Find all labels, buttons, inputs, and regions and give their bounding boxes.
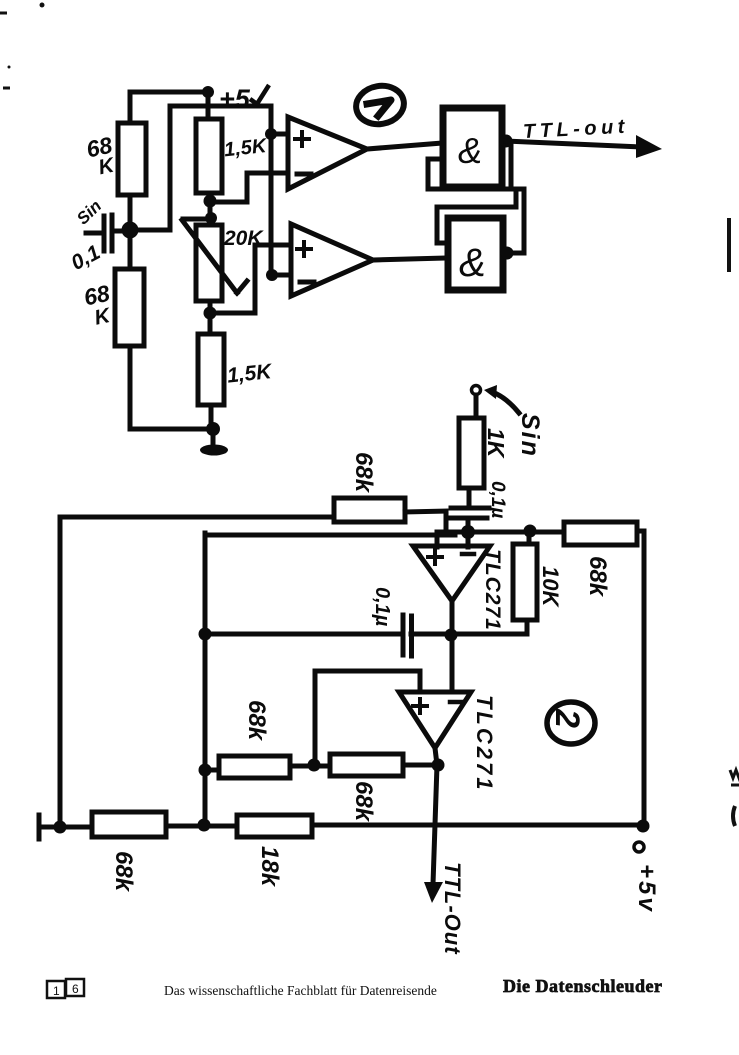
label TLC271 op-amp1 xyxy=(481,549,504,631)
svg-text:Das wissenschaftliche Fachblat: Das wissenschaftliche Fachblatt für Date… xyxy=(164,983,437,998)
resistor 68k mid right xyxy=(330,754,403,776)
speck xyxy=(40,3,45,8)
wire node down to lower 68K xyxy=(128,230,133,269)
label Sin input xyxy=(73,196,105,228)
wire 68K top lead xyxy=(128,92,133,123)
svg-text:Die Datenschleuder: Die Datenschleuder xyxy=(503,976,662,996)
resistor 10K xyxy=(513,544,537,620)
node 10K top xyxy=(524,525,537,538)
Sin pointer arrow xyxy=(492,392,519,413)
node potentiometer bottom xyxy=(204,307,217,320)
wire feedback right lead xyxy=(405,511,446,512)
wire +5V rail xyxy=(130,90,207,95)
wire input rail right segment xyxy=(437,530,564,535)
wire Sin terminal lead xyxy=(474,395,479,418)
label 68k feedback xyxy=(350,452,377,494)
label 68K upper xyxy=(84,132,119,181)
label +5V check mark xyxy=(250,85,269,104)
comparator 2 minus sign xyxy=(300,280,314,285)
svg-text:&: & xyxy=(459,241,486,285)
speck xyxy=(8,66,11,69)
svg-text:+5: +5 xyxy=(219,84,251,114)
capacitor 0,1u coupling xyxy=(448,508,489,518)
label 68k right xyxy=(584,556,611,598)
TTL-out arrowhead xyxy=(636,135,662,158)
wire op-amp1 minus lead xyxy=(466,532,471,547)
label 68k bottom xyxy=(110,851,137,893)
node bottom rail left xyxy=(54,821,67,834)
AND gate U2 xyxy=(448,218,503,290)
wire input rail left segment xyxy=(205,533,455,538)
svg-text:20K: 20K xyxy=(223,227,264,250)
op-amp comparator 2 xyxy=(291,224,373,296)
wire cap lower leads xyxy=(446,512,468,533)
wire comparator 1 output xyxy=(367,143,443,149)
footer page number box 6 xyxy=(66,979,84,996)
svg-text:2: 2 xyxy=(548,708,586,728)
node +5 rail bottom xyxy=(637,820,650,833)
op-amp1 plus sign xyxy=(428,550,442,564)
wire op-amp2 output down xyxy=(433,748,437,884)
wire outer left vertical xyxy=(58,518,63,827)
resistor R 68K upper xyxy=(118,123,146,195)
wire pot bottom to comparator 2 plus xyxy=(210,245,291,313)
label 10K xyxy=(538,566,563,608)
margin artifact mark lower xyxy=(733,806,735,826)
wire latch step xyxy=(437,190,516,207)
svg-text:68k: 68k xyxy=(243,700,270,742)
wire R1.5K upper top lead xyxy=(206,92,211,119)
wire 10K top lead xyxy=(527,531,532,544)
svg-text:68k: 68k xyxy=(350,781,377,823)
wire top left feedback run xyxy=(60,515,334,520)
svg-text:68k: 68k xyxy=(350,452,377,494)
resistor 68k bottom xyxy=(92,812,166,837)
footer page number box 1 xyxy=(47,981,65,998)
wire latch into U2 input xyxy=(437,207,448,243)
wire tap down to potentiometer xyxy=(208,201,213,225)
wire mid row right lead xyxy=(403,763,438,768)
wire U1 output drop xyxy=(509,144,514,189)
node mid rail left xyxy=(199,628,212,641)
wire latch cross horizontal xyxy=(428,187,524,192)
margin artifact mark upper xyxy=(730,770,739,785)
label 1K xyxy=(483,428,509,459)
label TLC271 op-amp2 xyxy=(472,695,497,792)
wire mid row lead xyxy=(205,768,219,773)
svg-text:18k: 18k xyxy=(256,846,283,888)
circled figure number 2 xyxy=(547,702,595,744)
label 18k bottom xyxy=(256,846,283,888)
circled figure number 1 xyxy=(353,82,407,128)
resistor R 1,5K lower xyxy=(198,334,224,405)
capacitor C 0,1 input xyxy=(86,215,130,251)
wire 10K bottom lead xyxy=(525,620,530,634)
label figure number 2 xyxy=(548,708,586,728)
wire inner left vertical xyxy=(203,533,208,825)
wire op-amp1 output down to op-amp2 xyxy=(450,601,455,692)
wire long vertical to comparator inputs xyxy=(269,106,274,275)
svg-text:68k: 68k xyxy=(110,851,137,893)
op-amp2 plus sign xyxy=(413,699,427,713)
capacitor 0,1u integrator xyxy=(403,615,412,656)
wire R1.5K lower to ground xyxy=(209,405,214,429)
potentiometer 20K body xyxy=(196,225,222,301)
op-amp comparator 1 xyxy=(288,117,367,189)
wire to comparator 2 minus xyxy=(272,273,291,278)
node op-amp1 output xyxy=(445,629,458,642)
node U1 output xyxy=(500,135,513,148)
resistor 68k right xyxy=(564,522,637,545)
terminal +5v xyxy=(634,842,644,852)
node sin input junction xyxy=(122,222,139,239)
svg-text:&: & xyxy=(458,130,482,171)
resistor 18k bottom xyxy=(237,815,312,837)
wire R1.5K bottom lead xyxy=(207,193,212,201)
node ground junction xyxy=(206,422,220,436)
node U2 output xyxy=(501,247,514,260)
potentiometer wiper arrow xyxy=(182,220,247,293)
label 1,5K upper xyxy=(223,135,269,161)
svg-text:68k: 68k xyxy=(584,556,611,598)
label Sin xyxy=(516,413,544,458)
wire lower 68K to ground rail xyxy=(130,346,213,429)
node +5V junction xyxy=(202,86,214,98)
wire op-amp2 feedback loop xyxy=(315,671,420,765)
node op-amp1 minus input xyxy=(461,525,475,539)
op-amp U2 TLC271 xyxy=(399,692,471,748)
ground xyxy=(211,429,216,445)
wire U2 output up xyxy=(507,190,524,253)
terminal Sin input xyxy=(472,386,481,395)
wire comparator 2 output xyxy=(373,258,448,260)
node mid row center xyxy=(308,759,321,772)
label TTL-out xyxy=(523,116,630,144)
node bottom rail center xyxy=(198,819,211,832)
comparator 1 plus sign xyxy=(295,132,309,146)
svg-text:TLC271: TLC271 xyxy=(472,695,497,792)
margin artifact top left dash xyxy=(0,13,10,88)
svg-text:1,5K: 1,5K xyxy=(223,135,269,161)
label 0,1 cap xyxy=(67,241,104,275)
wire wiper tie xyxy=(183,217,211,222)
wire mid row middle xyxy=(290,764,330,769)
resistor 68k mid left xyxy=(219,756,290,778)
svg-text:0,1µ: 0,1µ xyxy=(371,587,393,627)
svg-text:1,5K: 1,5K xyxy=(226,360,274,388)
label 1,5K lower xyxy=(226,360,274,388)
wire latch into U1 input xyxy=(428,159,443,189)
node comparator 2 minus input xyxy=(266,269,278,281)
svg-text:10K: 10K xyxy=(538,566,563,608)
wire TTL-out xyxy=(506,141,642,147)
resistor 68k feedback xyxy=(334,498,405,522)
wire to comparator 1 plus xyxy=(271,132,288,137)
resistor 1K xyxy=(459,418,484,488)
terminal input tick xyxy=(37,815,42,839)
svg-text:0,1µ: 0,1µ xyxy=(487,481,508,518)
node mid row left xyxy=(199,764,212,777)
label 68K lower xyxy=(82,280,117,331)
wire cap to 1K xyxy=(467,488,472,508)
label +5v xyxy=(633,864,660,914)
wire feedback mid horizontal xyxy=(205,632,527,637)
svg-text:TTL-Out: TTL-Out xyxy=(440,862,465,955)
label TTL-Out xyxy=(440,862,465,955)
node op-amp2 output xyxy=(432,759,445,772)
svg-text:TLC271: TLC271 xyxy=(481,549,504,631)
svg-text:1K: 1K xyxy=(483,428,509,459)
label 0,1u integrator xyxy=(371,587,393,627)
TTL-Out arrowhead xyxy=(424,882,443,903)
label 68k mid right xyxy=(350,781,377,823)
op-amp U1 TLC271 xyxy=(413,546,490,601)
op-amp1 minus sign xyxy=(462,552,474,557)
node potentiometer top xyxy=(205,212,217,224)
comparator 2 plus sign xyxy=(297,242,311,256)
svg-text:+5v: +5v xyxy=(633,864,660,914)
resistor R 68K lower xyxy=(115,269,144,346)
FIGURE 2 (rotated schematic) xyxy=(39,385,650,903)
label 68k mid left xyxy=(243,700,270,742)
wire sin node up and over xyxy=(130,106,271,230)
node comparator 1 plus input xyxy=(265,128,277,140)
wire 68k right lead to +5 rail xyxy=(637,531,644,826)
svg-text:6: 6 xyxy=(72,982,79,996)
wire bottom rail xyxy=(39,825,644,827)
margin artifact bar xyxy=(727,218,731,272)
comparator 1 minus sign xyxy=(297,172,311,177)
resistor R 1,5K upper xyxy=(196,119,222,193)
wire op-amp1 plus lead xyxy=(435,535,440,547)
wire divider tap to comparator 1 minus xyxy=(210,173,288,202)
wire pot bottom leads xyxy=(208,301,213,334)
op-amp2 minus sign xyxy=(450,700,462,705)
svg-text:Sin: Sin xyxy=(516,413,544,458)
AND gate U1 xyxy=(443,108,502,187)
svg-text:1: 1 xyxy=(53,984,60,998)
wire 68K bottom lead to node xyxy=(128,195,133,230)
node divider upper tap xyxy=(204,195,217,208)
label 0,1u coupling xyxy=(487,481,508,518)
